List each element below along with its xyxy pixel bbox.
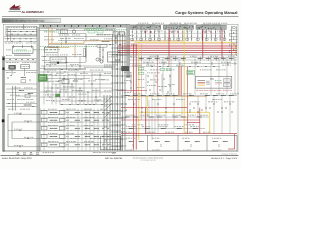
pink cargo horizontal — [121, 43, 237, 45]
center network verticals — [44, 66, 100, 105]
bottom left tank row lines — [8, 111, 121, 148]
red cargo horizontal 4 — [118, 52, 237, 54]
valve column x86 — [84, 45, 87, 62]
red vertical x145 — [144, 108, 146, 134]
instrument boxes top center — [113, 32, 118, 36]
valve row under colored band — [139, 56, 236, 64]
aft manifold box outline — [101, 136, 121, 150]
red cargo horizontal 2 — [118, 47, 237, 49]
tank column tie lines — [134, 32, 226, 34]
red short line y90 — [118, 89, 147, 91]
tan lower horizontal — [128, 95, 207, 97]
right mid horizontals — [130, 57, 237, 66]
yellow riser — [183, 29, 185, 134]
svg-text:Section 3.3.1 - Page 3 of 6: Section 3.3.1 - Page 3 of 6 — [211, 157, 238, 160]
tan vapour vertical 1 — [48, 27, 50, 47]
red box verticals right — [186, 67, 188, 134]
valve row top center — [96, 34, 112, 35]
machinery dark box — [9, 65, 16, 69]
main manifold vertical bundle — [104, 34, 127, 151]
svg-text:Ballast: Ballast — [206, 84, 211, 86]
control room white box — [108, 52, 121, 62]
tan riser by legend — [177, 66, 179, 96]
yellow lower vertical — [209, 112, 211, 133]
center scattered valves — [45, 71, 103, 105]
green dashed vapour line mid — [40, 46, 97, 48]
green cluster right of manifold — [138, 68, 147, 75]
green vapour labels center — [85, 27, 103, 33]
svg-text:Issue: Final Draft - May 2010: Issue: Final Draft - May 2010 — [2, 157, 32, 160]
green boxes mid right — [161, 68, 165, 70]
red valve dots under tanks — [145, 31, 146, 33]
low pressure alarm white box — [50, 57, 66, 64]
key legend box — [195, 77, 232, 89]
deck grey strip top — [40, 24, 128, 27]
valve column x100-103 — [97, 45, 107, 63]
red riser tank1 — [221, 29, 223, 58]
yellow cargo main horizontal — [134, 41, 230, 43]
svg-text:Illustration 2.3b Loading a Tw: Illustration 2.3b Loading a Two Grade Ca… — [4, 20, 46, 23]
valve rows y58-61 — [5, 58, 37, 63]
bottom left verticals — [41, 109, 99, 151]
red vertical x157 — [156, 55, 158, 96]
bottom inner line — [3, 150, 237, 152]
longitudinal bulkhead grey band — [37, 27, 40, 151]
deck horizontals top center — [40, 28, 127, 44]
inert gas plant cluster — [6, 24, 37, 41]
left-center valves — [44, 56, 81, 70]
yellow lower horizontal — [139, 111, 210, 113]
valve cluster box x44-58 — [45, 46, 59, 52]
clusters right middle y102-110 — [125, 102, 234, 113]
small green unit box — [56, 94, 60, 97]
tank name labels above bars — [138, 22, 139, 25]
company logo ship swoosh — [9, 4, 21, 9]
red manifold drop 2 — [135, 44, 137, 150]
yellow short vertical — [146, 96, 148, 117]
manifold comb under slop tank — [14, 53, 31, 55]
deck water seal rows — [4, 36, 37, 43]
bottom center small label — [93, 151, 96, 154]
manifold diagonals — [104, 96, 112, 118]
scattered tiny text labels over diagram — [6, 27, 239, 146]
grey horizontal under band — [118, 54, 237, 56]
svg-text:AL DERWIKIAH: AL DERWIKIAH — [22, 10, 44, 14]
legend symbols below frame — [16, 152, 39, 154]
pink manifold drop — [140, 44, 142, 120]
slop tank box with green vapour line — [12, 46, 33, 54]
red riser tank3 — [168, 29, 170, 58]
diagram border frame — [3, 24, 238, 151]
green dashed from slop box — [33, 49, 60, 51]
red corner bottom right — [234, 134, 236, 149]
red manifold drop 1 — [132, 44, 134, 150]
svg-text:All valves shown in red are cl: All valves shown in red are closed - Ref… — [196, 89, 233, 92]
tan vertical to alarm box — [74, 43, 76, 57]
red cargo horizontal 1 — [118, 45, 237, 47]
right mid cluster row y68 — [150, 66, 226, 70]
red riser tank3 extension — [168, 58, 170, 67]
cargo tank deck bars — [131, 25, 161, 29]
center tiny labels — [45, 69, 46, 72]
left hull shadow band — [2, 56, 5, 152]
green dashed vertical link — [61, 38, 63, 47]
red cargo horizontal 3 — [118, 49, 237, 51]
water ballast boxes bottom — [121, 135, 237, 151]
tank row groups middle — [70, 112, 109, 147]
left lower network rows — [6, 86, 37, 111]
eductor cluster — [57, 80, 78, 88]
valve row right y95.5 — [121, 95, 237, 100]
left-center horizontals y56-70 — [41, 57, 86, 70]
center network horizontals — [40, 66, 113, 105]
yellow manifold drop — [138, 42, 140, 140]
grey vertical duct center — [127, 24, 130, 76]
pump circles — [96, 58, 103, 63]
green instrument boxes left of legend — [187, 70, 194, 74]
footer rule — [1, 155, 239, 157]
green dashed vent line center — [84, 29, 127, 31]
left middle pipes — [5, 68, 37, 84]
right vertical pipes lower — [146, 57, 235, 140]
green dashed vapour line left-center — [44, 31, 66, 33]
text under box — [104, 64, 105, 67]
riser tower far right — [229, 26, 237, 56]
red bottom crossover — [121, 133, 237, 135]
yellow line curve at right end — [230, 42, 236, 54]
machinery white box — [20, 65, 29, 69]
legend icon labels — [43, 151, 45, 154]
left-center verticals — [45, 47, 81, 70]
footer doc lines — [133, 157, 164, 162]
logo caption mark — [9, 10, 22, 13]
tank row groups left — [42, 111, 69, 148]
valve row right y117 — [121, 116, 209, 117]
valve pairs right of manifold — [130, 73, 131, 92]
deck strip vent ticks — [43, 25, 121, 27]
header rule — [2, 15, 239, 17]
red stripping line — [121, 119, 200, 121]
svg-text:Cargo Systems Operating Manual: Cargo Systems Operating Manual — [175, 10, 237, 15]
red mid-right line — [121, 107, 187, 109]
tank top tiny labels — [140, 30, 141, 33]
green pump room box — [39, 75, 48, 82]
tan horizontal y43 — [49, 42, 85, 44]
red riser tank2 — [202, 29, 204, 58]
clusters left of legend y72-95 — [146, 73, 174, 96]
tan vapour vertical 2 — [51, 27, 53, 43]
tan horizontal y47.5 — [49, 47, 70, 49]
dark instrument box right of manifold — [122, 66, 129, 71]
left margin punch marks — [2, 58, 4, 61]
red pair verticals near legend — [179, 66, 181, 96]
top center clusters — [59, 30, 121, 46]
tan long line to right — [84, 41, 184, 43]
valve row right y128.5 — [121, 125, 205, 130]
under-deck valve columns of cargo tanks — [131, 29, 226, 41]
svg-text:IMO No: 9389783: IMO No: 9389783 — [105, 157, 123, 160]
